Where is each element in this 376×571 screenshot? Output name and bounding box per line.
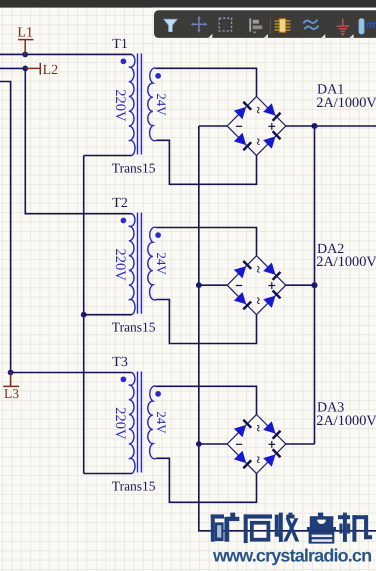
toolbar dropdown arrow 6 [320, 34, 325, 39]
svg-text:24V: 24V [154, 411, 169, 434]
toolbar icon: probe (clipped) [359, 18, 376, 34]
DA1 diode (left-top edge) [234, 107, 246, 119]
transformer T1 primary winding (220V) [129, 55, 135, 156]
svg-text:~: ~ [251, 425, 266, 432]
svg-text:220V: 220V [112, 89, 128, 122]
DA2 plus mark [268, 285, 275, 287]
watermark logo 音 [307, 513, 336, 544]
svg-text:24V: 24V [154, 252, 169, 275]
wire T1 secondary top lead to bridge [157, 68, 257, 96]
toolbar icon: filter funnel [164, 19, 177, 31]
transformer T2 secondary polarity dot [155, 232, 161, 238]
DA1 diode (bottom-right edge) [263, 136, 275, 148]
floating toolbar panel [154, 10, 376, 38]
wire visible through glyph hole [254, 530, 267, 532]
svg-text:L3: L3 [4, 386, 19, 401]
transformer T3 primary winding (220V) [129, 373, 135, 474]
watermark logo 机 [338, 513, 372, 542]
svg-text:~: ~ [251, 266, 266, 273]
toolbar icon: move/drag cross [191, 16, 208, 33]
junction minus DA2 [196, 282, 202, 288]
toolbar dropdown arrow 7 [348, 34, 353, 39]
toolbar icon: selection rectangle [219, 18, 231, 31]
toolbar separator [269, 18, 271, 34]
toolbar highlight line [152, 8, 376, 11]
transformer T3 secondary polarity dot [155, 391, 161, 397]
svg-text:~: ~ [251, 456, 266, 463]
toolbar icon: align left [249, 19, 262, 34]
DA1 diode (top-right edge) [263, 103, 275, 115]
DA3 diode (top-right edge) [263, 421, 275, 433]
wire DC plus output [315, 125, 376, 127]
transformer T3 core [137, 372, 139, 473]
wire T2 secondary bottom lead to bridge [156, 300, 256, 344]
wire DA1 plus output [286, 125, 315, 127]
DA3 diode (left-bottom edge) [234, 451, 246, 463]
DA2 minus mark [236, 285, 242, 287]
junction L3 [8, 370, 14, 376]
DA1 diode (left-bottom edge) [234, 133, 246, 145]
svg-text:Trans15: Trans15 [112, 160, 156, 175]
junction L2 [22, 66, 28, 72]
watermark logo 石 [244, 514, 272, 543]
svg-text:T3: T3 [112, 355, 128, 370]
wire DA3 minus output [199, 443, 227, 445]
transformer T2 secondary winding (24V) [148, 227, 157, 300]
toolbar icon: place GND port [337, 19, 349, 37]
svg-text:~: ~ [251, 138, 266, 145]
toolbar dropdown arrow 2 [207, 34, 212, 39]
DA2 diode (left-top edge) [234, 266, 246, 278]
toolbar dropdown arrow 4 [263, 34, 268, 39]
DA2 diode (top-right edge) [263, 263, 275, 275]
bridge rectifier DA2 diamond [227, 256, 286, 315]
wire T1 primary bottom lead [84, 155, 132, 157]
DA3 diode (bottom-right edge) [263, 454, 275, 466]
wire T3 secondary top lead to bridge [157, 386, 257, 414]
wire neutral bus [83, 156, 85, 474]
wire phase L3 feed [0, 82, 11, 373]
svg-text:24V: 24V [154, 93, 169, 116]
svg-text:L1: L1 [17, 26, 33, 41]
DA3 minus mark [236, 443, 242, 445]
DA2 diode (left-bottom edge) [234, 292, 246, 304]
svg-text:220V: 220V [112, 249, 128, 282]
junction plus DA1 [311, 123, 317, 129]
wire T2 primary bottom lead [84, 314, 132, 316]
DA3 plus mark [268, 443, 275, 445]
wire DA1 minus output [199, 125, 227, 127]
power port L2 [25, 63, 58, 78]
svg-text:~: ~ [251, 107, 266, 114]
svg-text:www.crystalradio.cn: www.crystalradio.cn [212, 546, 371, 566]
svg-text:2A/1000V: 2A/1000V [316, 254, 376, 270]
junction minus DA3 [196, 441, 202, 447]
junction plus DA2 [311, 282, 317, 288]
junction neutral at T2 [81, 312, 87, 318]
svg-text:L2: L2 [43, 63, 59, 78]
transformer T2 primary winding (220V) [129, 214, 135, 315]
svg-text:220V: 220V [112, 407, 128, 440]
svg-text:~: ~ [251, 297, 266, 304]
watermark logo 矿 [211, 513, 240, 542]
watermark logo 收 [275, 513, 299, 542]
transformer T2 primary polarity dot [121, 218, 127, 224]
transformer T3 primary polarity dot [121, 376, 127, 382]
wire phase L1 feed [0, 53, 132, 55]
wire T3 primary bottom lead [84, 473, 132, 475]
DA2 diode (bottom-right edge) [263, 296, 275, 308]
wire DA3 plus output [286, 443, 315, 445]
svg-text:2A/1000V: 2A/1000V [316, 413, 376, 429]
wire L2 riser to T2 [25, 68, 132, 213]
window top bar [0, 0, 376, 8]
svg-text:Trans15: Trans15 [112, 320, 156, 335]
power port L3 [3, 373, 19, 401]
power port L1 [17, 26, 33, 55]
svg-text:T2: T2 [112, 196, 128, 211]
svg-text:Trans15: Trans15 [112, 478, 156, 493]
transformer T2 core [137, 213, 139, 314]
svg-text:T1: T1 [112, 37, 128, 52]
transformer T1 secondary polarity dot [155, 73, 161, 79]
wire L3 to T3 [11, 372, 132, 374]
DA1 plus mark [268, 125, 275, 127]
wire T3 secondary bottom lead to bridge [156, 458, 256, 502]
DA3 diode (left-top edge) [234, 425, 246, 437]
wire DA2 plus output [286, 284, 315, 286]
toolbar icon: place wire (wavy) [303, 20, 318, 30]
bridge rectifier DA1 diamond [227, 97, 286, 156]
wire T2 secondary top lead to bridge [157, 228, 257, 256]
wire minus bus to bottom right [199, 126, 376, 531]
transformer T1 secondary winding (24V) [148, 68, 157, 141]
svg-text:2A/1000V: 2A/1000V [316, 95, 376, 111]
bridge rectifier DA3 diamond [227, 415, 286, 474]
transformer T1 primary polarity dot [121, 58, 127, 64]
toolbar icon: place part (IC) [275, 19, 291, 32]
wire T1 secondary bottom lead to bridge [156, 140, 256, 184]
wire plus bus [314, 126, 316, 444]
wire phase L2 feed [0, 67, 25, 69]
transformer T1 core [137, 54, 139, 155]
DA1 minus mark [236, 125, 242, 127]
transformer T3 secondary winding (24V) [148, 386, 157, 459]
wire DA2 minus output [199, 284, 227, 286]
junction L1 [22, 52, 28, 58]
